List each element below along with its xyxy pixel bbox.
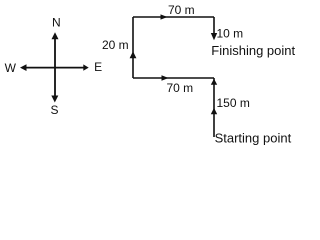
top 70 m right arrowhead [161, 14, 168, 19]
20 m up arrowhead [130, 51, 137, 58]
compass south arrowhead [51, 96, 58, 103]
svg-text:S: S [50, 103, 58, 117]
svg-text:E: E [94, 60, 102, 74]
compass north arrowhead [52, 32, 59, 39]
svg-text:70 m: 70 m [167, 81, 194, 95]
wire 10 m vertical segment [213, 17, 215, 34]
compass east arrowhead [83, 64, 88, 70]
compass vertical axis wire (N-S) [54, 36, 56, 97]
150 m upper arrowhead (at junction) [211, 79, 217, 85]
compass west arrowhead [20, 64, 27, 71]
svg-text:Finishing point: Finishing point [211, 43, 295, 58]
svg-text:10 m: 10 m [217, 26, 244, 40]
svg-text:150 m: 150 m [217, 96, 250, 110]
svg-text:Starting point: Starting point [215, 131, 292, 146]
10 m down arrowhead [211, 33, 217, 40]
compass horizontal axis wire (W-E) [25, 67, 84, 69]
wire top 70 m horizontal segment [133, 16, 214, 18]
wire lower 70 m horizontal segment [133, 77, 214, 79]
wire 150 m vertical segment [213, 78, 215, 137]
lower 70 m right arrowhead [162, 75, 169, 81]
svg-text:20 m: 20 m [102, 38, 129, 52]
svg-text:W: W [5, 61, 17, 75]
svg-text:N: N [52, 16, 61, 30]
150 m mid arrowhead [211, 108, 217, 114]
wire 20 m vertical segment [132, 17, 134, 78]
svg-text:70 m: 70 m [168, 3, 195, 17]
